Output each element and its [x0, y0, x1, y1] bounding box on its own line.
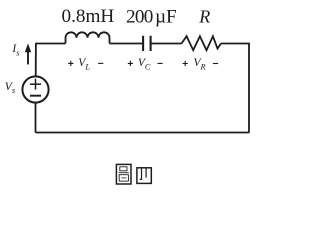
wire below source — [35, 102, 37, 132]
label +VR- — [183, 57, 219, 72]
svg-text:200: 200 — [126, 6, 153, 27]
minus sign inside source — [30, 95, 41, 97]
wire top-left segment — [36, 44, 66, 77]
wire resistor to top-right corner and right side — [221, 44, 249, 133]
wire capacitor to resistor — [151, 43, 181, 45]
svg-text:µF: µF — [155, 6, 177, 27]
voltage source Vs circle — [22, 76, 48, 102]
capacitor C1 200uF plates — [142, 36, 144, 51]
caption glyph 四 (hand-drawn) — [137, 168, 151, 184]
current arrow Is — [25, 43, 31, 64]
wire inductor to capacitor — [110, 43, 143, 45]
svg-text:0.8mH: 0.8mH — [62, 6, 115, 27]
inductor L1 0.8mH — [66, 32, 110, 43]
svg-text:VL: VL — [78, 57, 90, 72]
plus sign inside source — [30, 79, 41, 90]
svg-text:VC: VC — [138, 57, 151, 72]
label +VC- — [128, 57, 163, 72]
svg-text:VR: VR — [194, 57, 206, 72]
resistor R zigzag — [182, 36, 222, 50]
svg-text:Vs: Vs — [5, 81, 15, 95]
wire bottom — [36, 132, 250, 134]
label +VL- — [68, 57, 103, 72]
caption glyph 圖 (hand-drawn) — [116, 164, 131, 184]
svg-text:Is: Is — [11, 43, 19, 57]
svg-text:R: R — [198, 7, 210, 27]
